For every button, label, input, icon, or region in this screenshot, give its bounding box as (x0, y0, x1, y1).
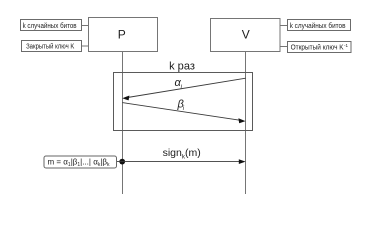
svg-text:V: V (242, 28, 250, 42)
svg-text:k случайных битов: k случайных битов (290, 22, 346, 30)
svg-text:Закрытый ключ K: Закрытый ключ K (26, 42, 74, 50)
svg-text:i: i (183, 106, 185, 112)
svg-text:k раз: k раз (169, 61, 195, 73)
svg-text:P: P (118, 28, 126, 42)
svg-text:Открытый ключ K: Открытый ключ K (291, 44, 344, 52)
svg-text:i: i (181, 84, 183, 90)
svg-text:k случайных битов: k случайных битов (23, 22, 77, 30)
svg-text:-1: -1 (344, 43, 348, 48)
svg-text:signk(m): signk(m) (163, 147, 201, 160)
